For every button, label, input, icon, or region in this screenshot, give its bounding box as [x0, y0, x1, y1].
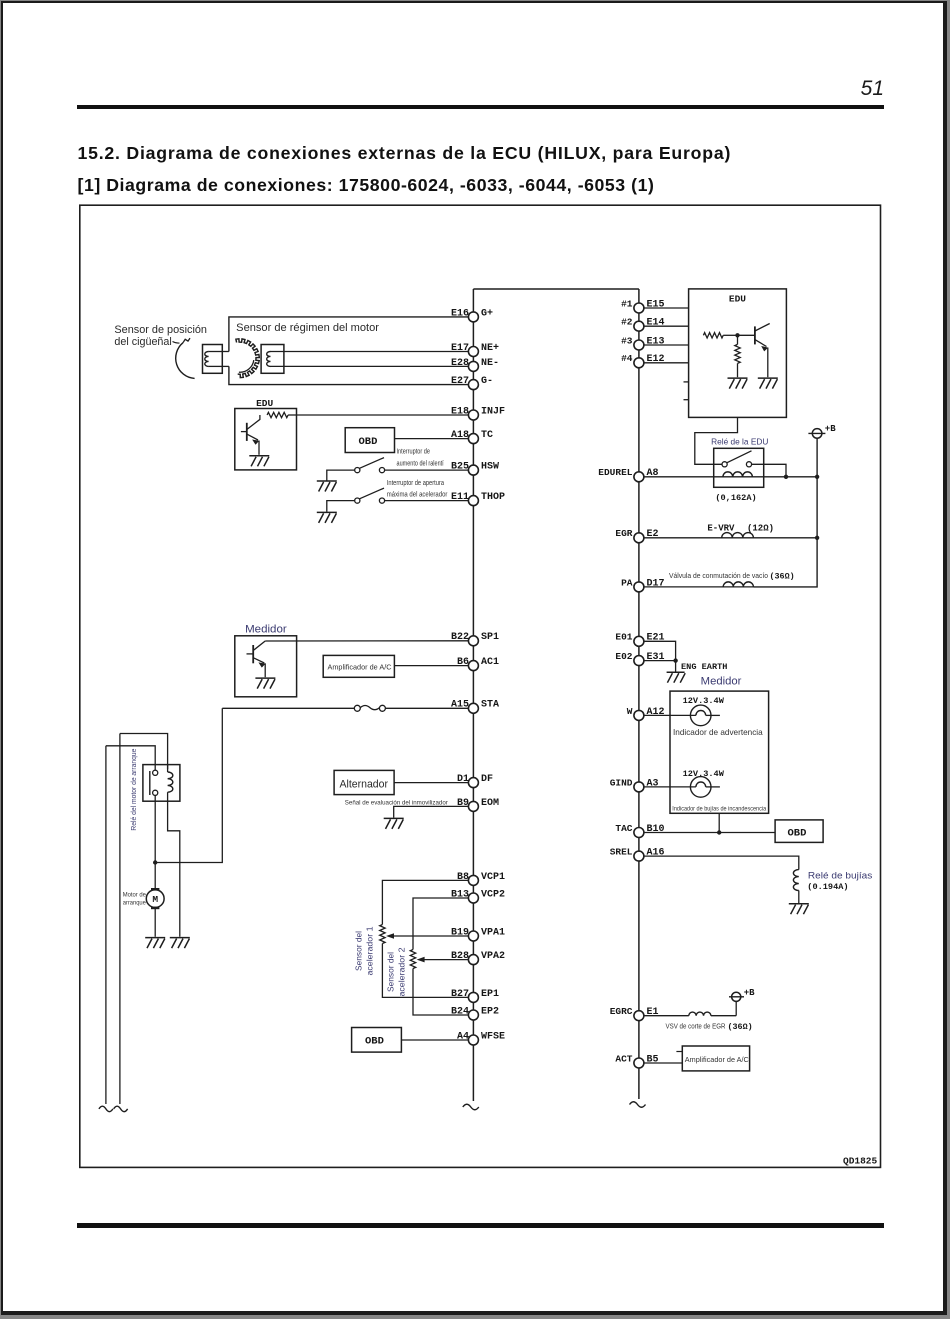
- wire: meter box to TAC wire: [718, 813, 720, 832]
- svg-text:(12Ω): (12Ω): [747, 524, 774, 534]
- OBD box (TC): [345, 428, 394, 453]
- wire: switch to ground (HSW): [327, 470, 355, 480]
- vacuum valve coil: [723, 582, 753, 587]
- svg-text:E01: E01: [615, 632, 632, 643]
- svg-text:A12: A12: [647, 707, 665, 718]
- ground (left EDU): [249, 456, 269, 467]
- svg-text:ACT: ACT: [615, 1053, 632, 1064]
- heading line 1: [78, 145, 732, 163]
- svg-text:E-VRV: E-VRV: [707, 524, 735, 534]
- wire: relay switch to motor: [154, 795, 156, 889]
- wire: pickup2 to pin E28: [271, 365, 469, 367]
- ground (THOP switch): [317, 512, 337, 523]
- wire: OBD to pin A4: [401, 1039, 468, 1041]
- svg-text:#4: #4: [621, 353, 633, 364]
- pin B9 (EOM): [457, 798, 499, 812]
- junction: TAC node: [717, 830, 721, 834]
- wire: left feeder A vertical: [105, 746, 107, 1104]
- break symbol: right bus bottom: [630, 1102, 646, 1108]
- wire: EDU to pin E18: [297, 414, 469, 416]
- pin B24 (EP2): [451, 1006, 499, 1020]
- svg-text:EDU: EDU: [256, 398, 273, 409]
- svg-text:Medidor: Medidor: [701, 676, 742, 688]
- pickup coil 2 winding: [267, 352, 271, 367]
- EDU box (right): [689, 289, 787, 418]
- pull-down resistor in EDU box: [737, 335, 739, 344]
- svg-text:Relé de bujías: Relé de bujías: [808, 871, 873, 882]
- svg-text:B8: B8: [457, 872, 469, 883]
- svg-text:E28: E28: [451, 358, 469, 369]
- junction: switch branch to A8 wire: [784, 475, 788, 479]
- svg-text:SP1: SP1: [481, 632, 499, 643]
- pin B13 (VCP2): [451, 889, 505, 903]
- svg-text:DF: DF: [481, 774, 493, 785]
- svg-text:ENG EARTH: ENG EARTH: [681, 662, 727, 672]
- wire: pin A16 to glow plug relay: [644, 856, 799, 870]
- pin E21 (E01): [615, 632, 664, 647]
- svg-text:E02: E02: [615, 651, 632, 662]
- svg-text:A3: A3: [647, 778, 659, 789]
- svg-text:(36Ω): (36Ω): [770, 572, 795, 582]
- pin B6 (AC1): [457, 657, 499, 671]
- svg-text:VPA1: VPA1: [481, 927, 505, 938]
- full-throttle switch (THOP): [355, 498, 360, 503]
- wire: amplifier to pin B6: [394, 665, 468, 667]
- wire: +B rail: [753, 438, 817, 587]
- leader to crank sensor: [173, 342, 180, 344]
- svg-text:A15: A15: [451, 700, 469, 711]
- svg-text:EP2: EP2: [481, 1006, 499, 1017]
- pin E14 (#2): [621, 317, 664, 332]
- wire: alternator to pin D1: [394, 782, 468, 784]
- svg-text:E17: E17: [451, 343, 469, 354]
- junction: A8 wire at +B rail: [815, 475, 819, 479]
- wire: pin D17 vacuum switching valve: [644, 586, 754, 588]
- svg-text:VPA2: VPA2: [481, 951, 505, 962]
- EDU relay switch: [722, 462, 727, 467]
- wire: pickup2 to pin E17: [271, 351, 469, 353]
- pin A15 (STA): [451, 700, 499, 714]
- wire: immobiliser signal to pin B9: [394, 806, 469, 817]
- wire: pin E1 VSV EGR cut: [644, 1015, 689, 1017]
- starter relay lever: [149, 771, 151, 795]
- svg-text:TC: TC: [481, 430, 493, 441]
- svg-text:(36Ω): (36Ω): [728, 1022, 753, 1032]
- pin B28 (VPA2): [451, 951, 505, 965]
- svg-text:Alternador: Alternador: [340, 779, 389, 791]
- heading line 2: [78, 177, 655, 195]
- svg-text:A4: A4: [457, 1031, 469, 1042]
- svg-text:Indicador de bujías de incande: Indicador de bujías de incandescencia: [672, 806, 766, 813]
- pin A16 (SREL): [610, 847, 665, 862]
- svg-text:Amplificador de A/C: Amplificador de A/C: [328, 662, 393, 671]
- wire: switch to pin B25: [385, 469, 469, 471]
- top rule: [77, 105, 884, 110]
- pin B8 (VCP1): [457, 872, 505, 886]
- svg-text:E12: E12: [647, 354, 665, 365]
- pickup coil 1 box: [203, 345, 223, 374]
- ground (EDU box right): [758, 378, 778, 389]
- ground (EDU box left): [728, 378, 748, 389]
- svg-text:Señal de evaluación del inmovi: Señal de evaluación del inmovilizador: [345, 799, 449, 806]
- wire: injectors to EDU box: [644, 307, 689, 309]
- wire: pin A8 through relay coil to +B rail: [644, 476, 817, 478]
- starter motor M: [146, 890, 164, 908]
- starter relay switch contacts: [153, 770, 158, 775]
- pin A4 (WFSE): [457, 1031, 505, 1045]
- page number 51: [790, 78, 884, 99]
- OBD box (WFSE): [352, 1028, 402, 1053]
- idle-up switch (HSW): [355, 468, 360, 473]
- svg-text:Sensor del: Sensor del: [354, 931, 364, 971]
- Alternador box: [334, 770, 394, 794]
- svg-text:E11: E11: [451, 492, 469, 503]
- svg-text:B25: B25: [451, 462, 469, 473]
- wire: switch to ground (THOP): [327, 501, 355, 512]
- svg-text:Sensor de régimen del motor: Sensor de régimen del motor: [236, 322, 379, 334]
- svg-text:aumento del ralentí: aumento del ralentí: [397, 461, 444, 468]
- pin E2 (EGR): [615, 528, 658, 543]
- pin A8 (EDUREL): [598, 467, 658, 482]
- wire: OBD to pin A18: [395, 438, 469, 440]
- svg-text:W: W: [627, 706, 633, 717]
- transistor Q (left EDU): [246, 423, 248, 441]
- starter relay box: [143, 765, 180, 802]
- svg-text:OBD: OBD: [359, 436, 378, 448]
- pin B25 (HSW): [451, 462, 499, 476]
- svg-text:B19: B19: [451, 927, 469, 938]
- svg-text:EP1: EP1: [481, 989, 499, 1000]
- svg-text:OBD: OBD: [365, 1036, 384, 1048]
- wire: relay coil to ground: [168, 801, 180, 937]
- starter feeder wire B (to relay coil): [120, 734, 168, 770]
- svg-text:PA: PA: [621, 577, 633, 588]
- svg-text:+B: +B: [825, 424, 836, 434]
- svg-text:B22: B22: [451, 632, 469, 643]
- pin E28 (NE-): [451, 358, 499, 372]
- svg-text:E16: E16: [451, 308, 469, 319]
- svg-text:+B: +B: [744, 988, 755, 998]
- pin A3 (GIND): [610, 777, 659, 792]
- sensor de regimen del motor box: [229, 317, 469, 385]
- transistor in Medidor box: [252, 645, 254, 663]
- svg-text:B9: B9: [457, 798, 469, 809]
- svg-text:#3: #3: [621, 335, 633, 346]
- +B supply symbol (EGRC): [732, 992, 741, 1001]
- svg-text:Relé del motor de arranque: Relé del motor de arranque: [131, 748, 138, 830]
- svg-text:Interruptor de: Interruptor de: [397, 449, 431, 456]
- svg-text:TAC: TAC: [615, 823, 632, 834]
- EDU driver box (left): [235, 409, 297, 470]
- pin A18 (TC): [451, 430, 493, 444]
- pin B22 (SP1): [451, 632, 499, 646]
- svg-text:E18: E18: [451, 406, 469, 417]
- wire: STA run: [222, 707, 354, 709]
- svg-text:Indicador de advertencia: Indicador de advertencia: [673, 727, 763, 737]
- svg-text:Válvula de conmutación de vací: Válvula de conmutación de vacío: [669, 572, 768, 580]
- pin D17 (PA): [621, 577, 664, 592]
- starter relay coil: [167, 765, 169, 772]
- junction: engine earth node: [673, 658, 677, 662]
- svg-text:VCP2: VCP2: [481, 889, 505, 900]
- wire: pin B5 to amplifier: [644, 1062, 682, 1064]
- junction: E2 wire at +B rail: [815, 536, 819, 540]
- E-VRV coil: [722, 533, 754, 538]
- svg-text:B6: B6: [457, 657, 469, 668]
- wire: ECU top rail: [473, 288, 639, 290]
- svg-text:G-: G-: [481, 376, 493, 387]
- svg-text:VCP1: VCP1: [481, 872, 505, 883]
- break symbol: left bus bottom: [463, 1104, 479, 1110]
- svg-text:E2: E2: [647, 529, 659, 540]
- svg-text:OBD: OBD: [788, 827, 807, 839]
- ground (immobiliser): [384, 818, 404, 829]
- resistor in right EDU box: [703, 333, 723, 338]
- bottom rule: [77, 1223, 884, 1228]
- pin E11 (THOP): [451, 492, 505, 506]
- svg-text:B5: B5: [647, 1054, 659, 1065]
- fuse (STA): [354, 705, 360, 711]
- pin E16 (G+): [451, 308, 493, 322]
- svg-text:acelerador 2: acelerador 2: [397, 947, 407, 996]
- svg-text:E1: E1: [647, 1007, 659, 1018]
- Medidor box (left): [235, 636, 297, 697]
- svg-text:QD1825: QD1825: [843, 1156, 878, 1167]
- svg-text:GIND: GIND: [610, 777, 633, 788]
- ground (starter motor): [145, 938, 165, 949]
- svg-text:EDU: EDU: [729, 294, 746, 305]
- pin D1 (DF): [457, 774, 493, 788]
- +B supply symbol (top): [812, 429, 822, 439]
- svg-text:EOM: EOM: [481, 798, 499, 809]
- svg-text:B28: B28: [451, 951, 469, 962]
- A/C amplifier box (left): [323, 655, 394, 677]
- EDU box input stubs: [684, 381, 689, 383]
- svg-text:Relé de la EDU: Relé de la EDU: [711, 437, 768, 447]
- svg-text:D17: D17: [647, 578, 665, 589]
- wiper arrow VPA2: [423, 959, 468, 961]
- wire: ECU right bus: [638, 289, 640, 1099]
- wire: EDU box to relay switch: [695, 417, 738, 464]
- ground (relay coil): [170, 938, 190, 949]
- schematic frame: [80, 205, 881, 1167]
- pickup coil 2 box: [261, 345, 284, 374]
- ground (glow relay): [789, 904, 809, 915]
- svg-text:(0.194A): (0.194A): [807, 882, 848, 892]
- svg-text:EDUREL: EDUREL: [598, 467, 633, 478]
- wiper arrow VPA1: [393, 935, 469, 937]
- wire: Medidor to pin B22: [265, 640, 468, 642]
- svg-text:Interruptor de apertura: Interruptor de apertura: [387, 480, 444, 487]
- svg-text:M: M: [152, 894, 158, 905]
- wire: switch to pin E11: [385, 500, 469, 502]
- toothed wheel (reluctor gear): [236, 339, 259, 378]
- svg-text:NE-: NE-: [481, 358, 499, 369]
- svg-text:arranque: arranque: [123, 900, 146, 907]
- svg-text:SREL: SREL: [610, 847, 633, 858]
- break symbol: feeder B: [114, 1106, 128, 1112]
- svg-text:Motor de: Motor de: [123, 892, 146, 899]
- pin E17 (NE+): [451, 343, 499, 357]
- pin A12 (W): [627, 706, 665, 721]
- break symbol: feeder A: [99, 1106, 113, 1112]
- svg-text:EGR: EGR: [615, 528, 632, 539]
- svg-text:G+: G+: [481, 308, 493, 319]
- pin B10 (TAC): [615, 823, 664, 838]
- pin E15 (#1): [621, 298, 664, 313]
- svg-text:B27: B27: [451, 989, 469, 1000]
- svg-text:E15: E15: [647, 299, 665, 310]
- gear inner rim arc: [239, 360, 254, 372]
- ground (Medidor left): [255, 678, 275, 689]
- svg-text:del cigüeñal: del cigüeñal: [114, 336, 171, 348]
- svg-text:AC1: AC1: [481, 657, 499, 668]
- glow plug relay coil: [793, 870, 798, 891]
- svg-text:Sensor de posición: Sensor de posición: [114, 324, 207, 336]
- svg-text:E14: E14: [647, 318, 665, 329]
- svg-text:#2: #2: [621, 317, 633, 328]
- svg-text:EGRC: EGRC: [610, 1006, 633, 1017]
- svg-text:B13: B13: [451, 889, 469, 900]
- svg-text:B10: B10: [647, 824, 665, 835]
- wire: ECU left bus: [472, 289, 474, 1101]
- pin E31 (E02): [615, 651, 664, 666]
- pin B19 (VPA1): [451, 927, 505, 941]
- wire: pickup1 to sensor box edge: [222, 351, 229, 353]
- svg-text:E31: E31: [647, 652, 665, 663]
- pin E1 (EGRC): [610, 1006, 659, 1021]
- svg-text:THOP: THOP: [481, 492, 505, 503]
- svg-text:12V.3.4W: 12V.3.4W: [683, 696, 725, 706]
- svg-text:Sensor del: Sensor del: [386, 952, 396, 992]
- svg-text:A18: A18: [451, 430, 469, 441]
- svg-text:#1: #1: [621, 298, 633, 309]
- reluctor tooth nub: [183, 338, 190, 343]
- wire: left feeder B vertical: [119, 734, 121, 1105]
- svg-text:D1: D1: [457, 774, 469, 785]
- wire: motor to ground: [154, 908, 156, 937]
- svg-text:STA: STA: [481, 700, 499, 711]
- svg-text:(0,162A): (0,162A): [715, 493, 756, 503]
- svg-text:NE+: NE+: [481, 343, 499, 354]
- wire: relay switch branch: [752, 464, 786, 477]
- transistor in right EDU box: [754, 326, 756, 344]
- svg-text:Medidor: Medidor: [245, 624, 287, 636]
- OBD box (TAC): [775, 820, 823, 843]
- pin B27 (EP1): [451, 989, 499, 1003]
- ground (ENG EARTH): [667, 672, 686, 683]
- pin E13 (#3): [621, 335, 664, 350]
- wire: pin E2 to +B rail (E-VRV): [644, 537, 817, 539]
- accelerator sensor 2 potentiometer: [413, 898, 468, 950]
- starter feeder wire A (to relay switch): [106, 746, 155, 770]
- EDU relay coil: [723, 472, 753, 477]
- svg-text:B24: B24: [451, 1006, 469, 1017]
- svg-text:E13: E13: [647, 336, 665, 347]
- svg-text:E21: E21: [647, 633, 665, 644]
- junction in EDU box: [735, 333, 739, 337]
- wire: pin B10 to OBD box: [644, 832, 775, 834]
- svg-text:E27: E27: [451, 376, 469, 387]
- svg-text:INJF: INJF: [481, 406, 505, 417]
- junction: starter node: [153, 860, 157, 864]
- crank position sensor reluctor arc: [176, 343, 195, 379]
- ground (HSW switch): [317, 481, 337, 492]
- VSV coil: [689, 1012, 711, 1016]
- pin E18 (INJF): [451, 406, 505, 420]
- svg-text:WFSE: WFSE: [481, 1031, 505, 1042]
- pickup coil 1 winding: [209, 351, 223, 353]
- pin B5 (ACT): [615, 1053, 658, 1068]
- wire: VSV to +B: [735, 1001, 737, 1015]
- accelerator sensor 1 potentiometer: [382, 880, 468, 924]
- svg-text:máxima del acelerador: máxima del acelerador: [387, 492, 448, 499]
- pin E12 (#4): [621, 353, 664, 368]
- svg-text:A16: A16: [647, 848, 665, 859]
- svg-text:A8: A8: [647, 468, 659, 479]
- svg-text:Amplificador de A/C: Amplificador de A/C: [685, 1055, 750, 1064]
- pin E27 (G-): [451, 376, 493, 390]
- svg-text:acelerador 1: acelerador 1: [365, 926, 375, 975]
- wire: STA down to starter junction: [155, 708, 222, 862]
- svg-text:HSW: HSW: [481, 462, 499, 473]
- svg-text:VSV de corte de EGR: VSV de corte de EGR: [666, 1024, 726, 1031]
- A/C amplifier box (right): [676, 1051, 682, 1053]
- Medidor box (right): [670, 691, 769, 813]
- wire: pin E21 to engine earth: [644, 641, 676, 660]
- wire: pin E31 to engine earth: [644, 660, 676, 662]
- EDU relay box: [714, 448, 764, 487]
- resistor in left EDU box: [267, 412, 288, 417]
